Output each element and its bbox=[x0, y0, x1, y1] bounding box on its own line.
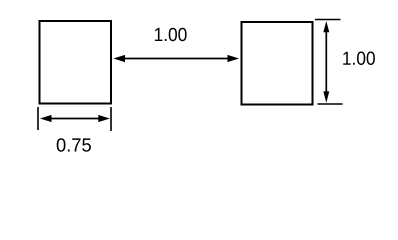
wire: 0.75 dimension double arrow bbox=[40, 115, 110, 122]
wire: top extension line of vertical 1.00 dimension bbox=[315, 19, 341, 21]
wire: left extension line of 0.75 dimension bbox=[37, 107, 39, 130]
left rectangle bbox=[40, 21, 112, 104]
wire: 1.00 vertical dimension double arrow bbox=[323, 21, 329, 103]
wire: bottom extension line of vertical 1.00 dimension bbox=[318, 103, 343, 105]
right rectangle bbox=[242, 22, 313, 105]
value label 1.00 (vertical) bbox=[343, 52, 375, 65]
wire: 1.00 horizontal dimension double arrow bbox=[113, 55, 239, 62]
value label 1.00 (horizontal) bbox=[155, 28, 187, 41]
value label 0.75 bbox=[57, 138, 91, 151]
wire: right extension line of 0.75 dimension bbox=[110, 107, 112, 131]
